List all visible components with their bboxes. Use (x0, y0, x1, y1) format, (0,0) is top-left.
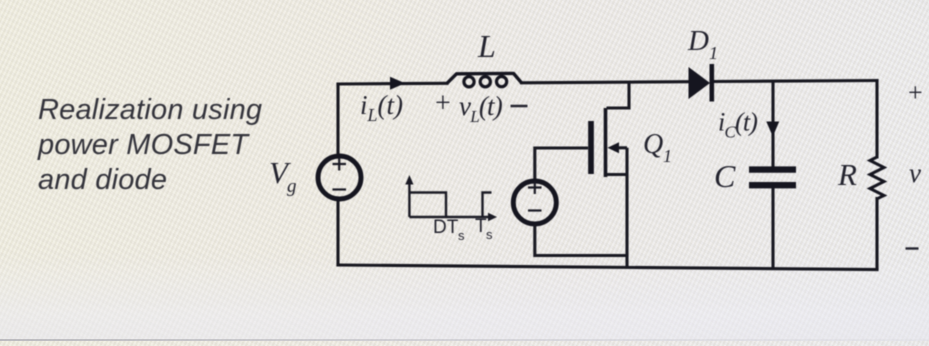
wire gate lead (535, 148, 588, 181)
transistor Q1 source stub (606, 173, 628, 176)
slide title text (38, 93, 262, 198)
diode D1 (689, 67, 711, 99)
svg-text:+: + (435, 88, 451, 119)
svg-text:iC(t): iC(t) (718, 108, 757, 142)
svg-text:DT: DT (433, 217, 459, 238)
svg-text:s: s (458, 228, 465, 243)
capacitor C plates (749, 166, 796, 172)
gate pulse waveform baseline (409, 216, 489, 218)
wire top rail segment 3 (diode to right) (714, 81, 877, 82)
Vg plus sign (333, 158, 347, 171)
wire left vertical (Vg branch) (336, 84, 339, 265)
svg-text:L: L (477, 28, 496, 64)
wire bottom rail (338, 265, 877, 270)
inductor L (447, 73, 522, 83)
svg-text:+: + (908, 78, 923, 107)
wire top rail segment 2 (inductor to diode) (522, 82, 689, 83)
svg-text:C: C (714, 158, 736, 194)
wire driver bottom loop (535, 225, 627, 256)
driver plus sign (528, 181, 542, 194)
current arrow iC (766, 122, 779, 137)
transistor Q1 gate bar (588, 121, 594, 174)
svg-text:R: R (837, 157, 857, 192)
svg-text:g: g (287, 176, 297, 197)
svg-text:s: s (486, 227, 493, 242)
wire capacitor branch bottom (771, 188, 774, 269)
resistor R zigzag (870, 157, 884, 199)
gate pulse waveform axis vertical (408, 183, 410, 217)
label - (output) (906, 247, 919, 249)
transistor Q1 channel bar (604, 108, 608, 177)
Vg minus sign (333, 188, 347, 190)
wire MOSFET drain (607, 82, 630, 108)
wire top rail segment 1 (left of inductor) (338, 82, 447, 86)
svg-text:1: 1 (663, 146, 672, 166)
svg-text:1: 1 (709, 43, 718, 63)
source gate driver (circle symbol) (513, 181, 556, 224)
source Vg (circle symbol) (318, 156, 361, 199)
transistor Q1 body arrow (608, 142, 620, 153)
svg-text:v: v (909, 158, 921, 188)
current arrow iL on top rail (390, 77, 405, 90)
gate pulse waveform pulse (409, 193, 491, 218)
svg-text:Q: Q (643, 129, 663, 160)
svg-text:D: D (687, 25, 709, 57)
bottom photo edge shade (0, 339, 929, 341)
wire capacitor branch top (771, 81, 774, 166)
wire MOSFET source vertical to bottom rail (625, 148, 628, 268)
svg-text:iL(t): iL(t) (360, 90, 403, 125)
svg-text:vL(t): vL(t) (459, 91, 503, 126)
driver minus sign (528, 209, 542, 211)
wire right vertical (load branch) (875, 81, 878, 270)
